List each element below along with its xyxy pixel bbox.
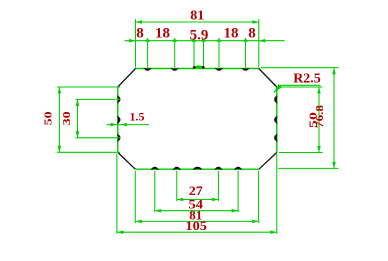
svg-text:50: 50 (43, 111, 55, 126)
svg-text:81: 81 (190, 9, 204, 24)
svg-text:8: 8 (248, 25, 256, 41)
svg-text:76.8: 76.8 (314, 104, 326, 128)
svg-text:18: 18 (224, 25, 239, 41)
svg-text:8: 8 (136, 25, 144, 41)
svg-text:5.9: 5.9 (190, 27, 209, 43)
svg-text:R2.5: R2.5 (293, 72, 321, 87)
svg-text:30: 30 (61, 111, 73, 126)
svg-text:105: 105 (185, 218, 207, 233)
svg-text:18: 18 (155, 25, 170, 41)
svg-text:1.5: 1.5 (130, 110, 145, 124)
